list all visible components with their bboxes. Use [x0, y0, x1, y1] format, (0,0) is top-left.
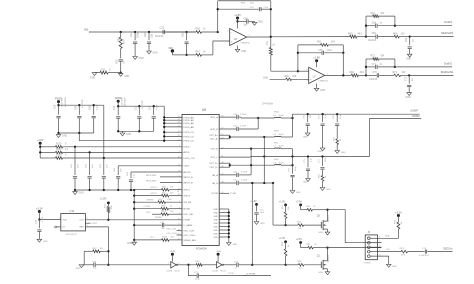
resistor R54: [146, 211, 182, 216]
svg-text:VCOM: VCOM: [211, 193, 218, 195]
power +1.8V U6: [234, 14, 241, 29]
svg-text:R68: R68: [350, 72, 355, 74]
capacitor C62: [145, 32, 154, 51]
svg-text:GND: GND: [260, 223, 265, 225]
wire pin-141: [79, 133, 182, 141]
svg-text:GND: GND: [213, 219, 218, 221]
resistor R67: [187, 52, 213, 57]
svg-text:INPUT_B: INPUT_B: [183, 182, 193, 184]
svg-text:FB-C: FB-C: [274, 142, 279, 144]
wire u10-long: [85, 217, 182, 220]
pin stub U10-out2: [85, 223, 98, 225]
resistor R64: [393, 33, 410, 38]
capacitor C42a: [71, 147, 80, 190]
ground gnd-u6: [235, 49, 246, 53]
junction J-rc2a: [365, 66, 367, 68]
wire r47-c48-vert: [83, 251, 85, 264]
svg-text:GND: GND: [392, 266, 397, 268]
capacitor C47: [134, 222, 182, 230]
svg-text:GPIO2: GPIO2: [183, 196, 190, 198]
resistor R71: [267, 37, 276, 71]
svg-text:13: 13: [178, 171, 180, 173]
resistor R60: [348, 33, 366, 38]
wire fb-left-vert: [217, 1, 219, 32]
junction J-lineB0: [263, 155, 265, 157]
resistor R53: [134, 205, 182, 210]
svg-text:C0G: C0G: [327, 50, 332, 52]
svg-text:GND: GND: [79, 227, 84, 229]
svg-text:C62: C62: [145, 32, 147, 37]
net MidOutN line: [409, 70, 454, 76]
wire u7-minus: [298, 70, 309, 72]
svg-text:R72: R72: [371, 56, 376, 58]
capacitor C74: [194, 272, 246, 281]
svg-text:MidOutN1: MidOutN1: [441, 70, 454, 74]
wire outB: [219, 148, 251, 150]
svg-text:44: 44: [178, 157, 180, 159]
svg-text:1uF/X5R: 1uF/X5R: [142, 100, 144, 109]
ground gnd-g2: [120, 131, 131, 136]
junction J-bus6: [133, 239, 135, 241]
svg-text:+1.8V: +1.8V: [250, 201, 257, 203]
svg-text:GND: GND: [232, 244, 237, 246]
svg-text:R130: R130: [56, 144, 62, 146]
wire j6-pin5-gnd: [386, 256, 397, 268]
svg-text:LP=70kHz: LP=70kHz: [262, 103, 274, 105]
svg-text:GND: GND: [320, 90, 325, 92]
svg-text:OPA1632: OPA1632: [241, 42, 251, 45]
svg-text:+1.8V: +1.8V: [279, 238, 286, 240]
resistor R12: [95, 70, 121, 75]
svg-text:GND: GND: [326, 189, 331, 191]
ground gnd-r45: [320, 188, 331, 192]
wire q1-source-gnd: [319, 269, 330, 275]
svg-text:C65: C65: [372, 33, 377, 35]
junction J-r44: [107, 219, 109, 221]
svg-text:GPIO1: GPIO1: [183, 190, 190, 192]
svg-text:GND: GND: [258, 22, 263, 24]
junction J-r5: [130, 189, 132, 191]
svg-text:1: 1: [59, 218, 60, 220]
net stub OSC1: [167, 229, 183, 231]
svg-text:MID: MID: [169, 48, 174, 50]
junction J-row4a: [250, 148, 252, 150]
svg-text:GND: GND: [43, 241, 48, 243]
ground gnd-c48: [76, 265, 85, 270]
resistor R68: [350, 72, 367, 77]
junction J-bus5: [133, 224, 135, 226]
junction J-in1: [120, 31, 122, 33]
junction J-g1d: [57, 132, 59, 134]
svg-text:10uF/16V: 10uF/16V: [121, 97, 123, 107]
svg-text:SPEED_ADJ: SPEED_ADJ: [183, 239, 196, 242]
svg-text:C60: C60: [117, 59, 119, 64]
svg-text:1n: 1n: [235, 268, 237, 270]
wire q5d-right: [328, 210, 382, 243]
capacitor C64: [218, 7, 271, 11]
svg-text:X5R/0805: X5R/0805: [125, 97, 127, 107]
wire to-u7: [271, 70, 298, 72]
net label AGND: [263, 77, 286, 79]
svg-text:+1.8V: +1.8V: [234, 14, 241, 17]
svg-text:6: 6: [179, 181, 180, 183]
svg-text:R63: R63: [117, 37, 121, 42]
svg-text:R131: R131: [56, 149, 62, 151]
svg-text:63: 63: [178, 119, 180, 121]
wire plus-input: [213, 41, 230, 55]
svg-text:U1INP: U1INP: [410, 109, 418, 113]
svg-text:GND: GND: [213, 212, 218, 214]
wire j6-pin4: [381, 249, 401, 252]
wire rc1-rvert: [394, 16, 396, 26]
svg-text:C67: C67: [319, 50, 324, 52]
junction J-x2: [107, 264, 109, 266]
wire avdd-pin4: [163, 126, 182, 128]
ground gnd-u9: [227, 243, 238, 247]
svg-text:1uF/X5R: 1uF/X5R: [82, 99, 84, 108]
wire pin-1658: [118, 165, 182, 167]
junction J-u7out: [342, 74, 344, 76]
svg-text:R71: R71: [267, 40, 269, 45]
junction J-clk1: [187, 264, 189, 266]
svg-text:OUT_D+: OUT_D+: [209, 163, 218, 165]
net OutN line: [395, 61, 453, 67]
wire x264-vert: [263, 137, 265, 183]
junction J-bus1: [133, 194, 135, 196]
svg-text:GND: GND: [319, 272, 324, 274]
power +3.3V U10: [36, 207, 43, 219]
svg-text:0.15uF: 0.15uF: [240, 114, 247, 116]
junction J-row1a: [257, 117, 259, 119]
svg-text:GND: GND: [213, 209, 218, 211]
buffer U12A: [167, 262, 181, 273]
junction J-line1: [365, 35, 367, 37]
capacitor C34: [55, 97, 67, 133]
svg-text:+1.8V: +1.8V: [313, 57, 320, 60]
capacitor C52: [219, 180, 273, 185]
capacitor C72: [405, 75, 414, 92]
svg-text:PVDD_CD: PVDD_CD: [183, 136, 194, 138]
svg-text:PDWN: PDWN: [183, 220, 190, 222]
junction J-u6out: [270, 36, 272, 38]
svg-text:32: 32: [178, 135, 180, 137]
wire row4-down: [292, 149, 294, 157]
svg-text:1: 1: [379, 237, 380, 239]
svg-text:GPIO1: GPIO1: [151, 187, 158, 189]
svg-text:U7: U7: [313, 75, 317, 79]
svg-text:64: 64: [178, 116, 180, 118]
junction J-bus2: [133, 201, 135, 203]
wire x292-down: [292, 157, 294, 174]
svg-text:+3.3V: +3.3V: [296, 201, 303, 203]
svg-text:+3.3V: +3.3V: [215, 251, 221, 253]
resistor R52: [134, 199, 182, 204]
junction J-rc2b: [394, 66, 396, 68]
svg-text:GND: GND: [79, 193, 84, 195]
junction J-fb-left: [217, 31, 219, 33]
junction J-x264: [263, 182, 265, 184]
svg-text:OSC_CLKI: OSC_CLKI: [183, 231, 194, 233]
svg-text:R67: R67: [196, 52, 201, 54]
ground gnd-c60: [118, 73, 129, 78]
svg-text:U10: U10: [70, 209, 75, 213]
wire clock-main-1: [108, 264, 170, 266]
svg-text:IN1: IN1: [84, 28, 89, 32]
capacitor C65: [366, 33, 394, 42]
capacitor C36: [114, 97, 126, 132]
resistor R44 pullup: [100, 198, 113, 220]
capacitor C39: [35, 216, 44, 239]
resistor R47: [84, 248, 108, 253]
junction J-g1c: [93, 104, 95, 106]
resistor R63: [117, 32, 126, 58]
capacitor C68: [366, 23, 395, 28]
svg-text:FB-A: FB-A: [274, 111, 279, 114]
svg-text:PDWN: PDWN: [155, 217, 162, 219]
svg-text:BCK_A: BCK_A: [211, 116, 219, 119]
svg-text:GND: GND: [127, 243, 132, 245]
capacitor C77b: [319, 157, 328, 176]
svg-text:OutP1: OutP1: [444, 20, 452, 24]
svg-text:5: 5: [379, 254, 380, 256]
svg-text:GND: GND: [213, 223, 218, 225]
svg-text:3: 3: [87, 218, 88, 220]
capacitor C49: [219, 114, 258, 119]
power +3.3V q1row: [296, 239, 308, 248]
junction J-row3: [103, 157, 105, 159]
capacitor C56: [304, 113, 313, 133]
power +3.3V J6: [395, 211, 402, 222]
wire avdd-down: [163, 106, 165, 141]
svg-text:10uH: 10uH: [279, 146, 284, 148]
svg-text:31: 31: [178, 139, 180, 141]
capacitor C44: [100, 158, 109, 190]
svg-text:10uF/16: 10uF/16: [369, 79, 378, 81]
svg-text:GND: GND: [213, 237, 218, 239]
junction J-g1e: [78, 132, 80, 134]
wire rc1-lvert: [365, 16, 367, 36]
junction J-g2e: [138, 130, 140, 132]
wire pin-172: [131, 171, 182, 173]
resistor R69i: [285, 76, 309, 81]
svg-text:2N7002: 2N7002: [328, 255, 330, 262]
capacitor C71: [366, 64, 395, 69]
junction J-line2: [365, 74, 367, 76]
junction J-g2d: [117, 130, 119, 132]
junction J-out2: [408, 74, 410, 76]
svg-text:GND: GND: [341, 152, 346, 154]
resistor R70f: [298, 42, 343, 47]
resistor R56b: [307, 244, 328, 249]
svg-text:OutN1: OutN1: [444, 61, 453, 65]
wire outD-join: [219, 163, 274, 167]
junction J-rc1a: [365, 25, 367, 27]
svg-text:1M: 1M: [100, 248, 103, 250]
junction J-fb2r: [270, 8, 272, 10]
junction J-g2b: [138, 105, 140, 107]
svg-text:C68: C68: [372, 23, 377, 25]
svg-text:SDA: SDA: [385, 235, 390, 238]
net stub INPUT2: [146, 180, 182, 182]
svg-text:R111: R111: [400, 248, 406, 250]
svg-text:DVDD: DVDD: [183, 146, 190, 148]
svg-text:15: 15: [177, 191, 179, 193]
junction J-in3: [148, 31, 150, 33]
wire gate5-row: [273, 224, 286, 226]
junction J-r4: [117, 189, 119, 191]
resistor R48: [189, 261, 217, 270]
svg-text:C70: C70: [373, 72, 378, 74]
svg-text:+3.3V: +3.3V: [296, 239, 303, 241]
svg-text:PVDD_CD: PVDD_CD: [183, 141, 194, 143]
power AVDD: [115, 97, 122, 106]
wire row137-up: [292, 118, 294, 137]
svg-text:R69: R69: [285, 76, 290, 78]
resistor R73: [393, 72, 410, 77]
svg-text:OSC_CLKI: OSC_CLKI: [167, 229, 177, 231]
wire U9-gnd-bus: [213, 209, 229, 243]
svg-text:+1.8V: +1.8V: [279, 201, 286, 203]
resistor R59: [286, 221, 322, 230]
resistor R70: [394, 219, 403, 238]
svg-text:R66: R66: [196, 29, 201, 31]
pin stub U10-ST: [55, 226, 61, 228]
junction J-row5b: [291, 164, 293, 166]
svg-text:AVDD2: AVDD2: [183, 171, 191, 174]
junction J-lineA2: [321, 113, 323, 115]
svg-text:62: 62: [178, 122, 180, 124]
svg-text:R61: R61: [371, 13, 376, 15]
capacitor C57: [319, 114, 328, 148]
svg-text:OUT_D-: OUT_D-: [210, 167, 218, 169]
ground gnd-in-left: [90, 73, 97, 80]
wire u7-out: [325, 74, 352, 76]
ground gnd-c57: [318, 148, 325, 153]
svg-text:GND: GND: [406, 59, 411, 61]
svg-text:0.15uF: 0.15uF: [240, 126, 247, 128]
wire lineB: [219, 114, 421, 157]
svg-text:11: 11: [178, 224, 180, 226]
svg-text:2.2n: 2.2n: [325, 114, 327, 118]
ground gnd-g1: [56, 133, 67, 138]
resistor R61: [366, 13, 395, 18]
svg-text:1uF: 1uF: [124, 59, 126, 64]
svg-text:SPI_EN: SPI_EN: [183, 202, 191, 204]
svg-text:16: 16: [178, 194, 180, 196]
capacitor C58: [333, 114, 342, 139]
ground gnd-c75: [303, 179, 310, 184]
svg-text:VCMA: VCMA: [230, 192, 237, 195]
power +1.8V cap: [250, 201, 257, 206]
svg-text:-: -: [231, 30, 232, 34]
wire pvdd-to-row3: [103, 105, 105, 158]
svg-text:20: 20: [178, 229, 180, 231]
svg-text:R132: R132: [56, 155, 62, 157]
power PVDD: [55, 97, 62, 105]
junction J-q5d: [326, 209, 328, 211]
capacitor C77: [322, 157, 324, 167]
op-amp-IC U9 PCM4204: [178, 108, 224, 251]
power +3.3V U12A: [170, 251, 176, 262]
wire x251-vert: [250, 149, 252, 175]
ground gnd-c55: [254, 222, 265, 226]
svg-text:0.1uF: 0.1uF: [156, 104, 158, 110]
svg-text:+3.3V: +3.3V: [395, 211, 402, 214]
ground gnd-c66: [252, 21, 263, 25]
svg-text:INPUT_A: INPUT_A: [183, 176, 193, 179]
junction J-rc1b: [394, 25, 396, 27]
ground gnd-r49: [335, 151, 346, 155]
svg-text:OSC_CLKO: OSC_CLKO: [167, 233, 178, 235]
svg-text:33: 33: [178, 131, 180, 133]
junction J-row1: [74, 146, 76, 148]
inductor L5: [258, 111, 292, 118]
svg-text:BCK_B: BCK_B: [211, 129, 219, 131]
connector J6: [364, 230, 389, 264]
ground gnd-c56: [303, 133, 310, 139]
svg-text:GND: GND: [62, 136, 67, 138]
svg-text:PVDD_AB: PVDD_AB: [183, 126, 194, 129]
inductor L8: [274, 159, 293, 165]
svg-text:PVDD_AB: PVDD_AB: [183, 122, 194, 125]
svg-text:GND: GND: [296, 192, 301, 194]
wire u6-vminus: [237, 46, 239, 50]
capacitor C61: [131, 32, 140, 57]
svg-text:R12: R12: [101, 70, 106, 72]
svg-text:R110: R110: [162, 237, 168, 239]
capacitor C40: [75, 99, 84, 133]
power +3.3V U12B: [215, 251, 221, 262]
svg-text:0.1uF: 0.1uF: [42, 216, 44, 222]
ground gnd-caps: [73, 190, 84, 195]
pin stub VCOM: [219, 192, 236, 195]
wire caps-bottom-rail: [75, 189, 134, 191]
junction J-x252: [251, 182, 253, 184]
net MidOutP line: [410, 31, 454, 37]
junction J-u7in: [297, 70, 299, 72]
resistor R111: [400, 248, 425, 257]
svg-text:SB_A: SB_A: [212, 174, 218, 177]
svg-text:AVDD: AVDD: [183, 151, 189, 154]
wire rc2-lvert: [365, 59, 367, 75]
resistor R130: [39, 144, 182, 149]
junction J-g2a: [117, 105, 119, 107]
svg-text:U9: U9: [202, 108, 206, 112]
op-amp U6: [228, 29, 251, 46]
svg-text:OUT_C: OUT_C: [210, 157, 218, 159]
junction J-g5: [284, 224, 286, 226]
ground gnd-c39: [37, 239, 48, 243]
junction J-u7fbr: [342, 52, 344, 54]
power +3.3V q5row: [296, 201, 307, 209]
wire rc2-rvert: [394, 59, 396, 67]
svg-text:U1INN: U1INN: [412, 114, 420, 118]
junction J-141: [163, 140, 165, 142]
svg-text:TP-36: TP-36: [228, 273, 234, 275]
capacitor C51: [219, 172, 251, 177]
node IN1 input: [84, 28, 196, 32]
junction J-row2: [88, 151, 90, 153]
svg-text:10uH: 10uH: [279, 115, 284, 117]
capacitor C70: [366, 72, 394, 81]
junction J-u6vcc: [236, 20, 238, 22]
ground gnd-c59: [290, 191, 301, 195]
junction J-lineB1: [291, 155, 293, 157]
svg-text:2.2n: 2.2n: [311, 158, 313, 162]
wire u7-vminus: [316, 84, 318, 89]
svg-text:GND: GND: [213, 230, 218, 232]
IC U10: [59, 209, 88, 236]
